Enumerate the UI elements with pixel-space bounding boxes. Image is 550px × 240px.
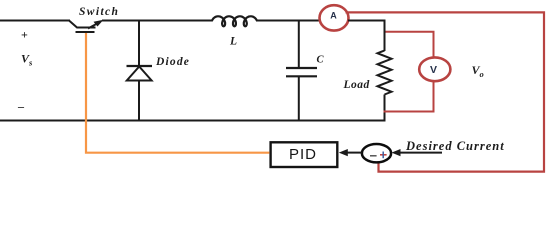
wire top rail left segment: [0, 20, 70, 22]
svg-text:–: –: [17, 100, 25, 114]
svg-text:Desired Current: Desired Current: [405, 139, 505, 153]
diode D1: [127, 66, 153, 81]
svg-text:PID: PID: [289, 146, 317, 163]
inductor L1 coil: [212, 16, 258, 26]
PID controller box U1: [271, 142, 338, 167]
svg-text:s: s: [28, 58, 33, 68]
ammeter A1: [320, 5, 349, 30]
svg-text:A: A: [330, 10, 337, 20]
svg-text:+: +: [21, 28, 28, 42]
wire top rail middle segment: [102, 20, 212, 22]
wire load lower lead: [384, 95, 386, 122]
wire summing junction to PID arrow: [346, 152, 362, 154]
svg-text:C: C: [317, 55, 325, 66]
wire voltmeter bottom red lead: [384, 81, 434, 112]
svg-text:o: o: [480, 69, 484, 79]
switch (transistor): [69, 20, 104, 32]
summing junction S: [362, 144, 391, 162]
wire PID gate drive orange: [86, 33, 269, 153]
svg-text:V: V: [430, 64, 437, 76]
wire capacitor branch upper: [298, 21, 300, 69]
resistor Load zigzag: [378, 51, 392, 95]
wire voltmeter top red lead: [386, 32, 434, 58]
wire desired current arrow: [398, 152, 442, 154]
capacitor C1: [286, 68, 317, 76]
wire ammeter to load corner: [348, 21, 385, 52]
wire top rail right of inductor: [257, 20, 322, 22]
svg-text:L: L: [229, 36, 237, 48]
wire diode branch lower: [138, 81, 140, 122]
label plus input: [380, 154, 387, 156]
label minus input: [370, 155, 377, 157]
wire diode branch upper: [138, 21, 140, 67]
svg-text:Switch: Switch: [79, 6, 119, 18]
svg-text:Diode: Diode: [155, 56, 190, 68]
wire current feedback red loop: [346, 12, 545, 171]
svg-text:Load: Load: [343, 79, 370, 91]
voltmeter V1: [419, 57, 450, 81]
wire capacitor branch lower: [298, 76, 300, 121]
wire bottom rail: [0, 120, 385, 122]
